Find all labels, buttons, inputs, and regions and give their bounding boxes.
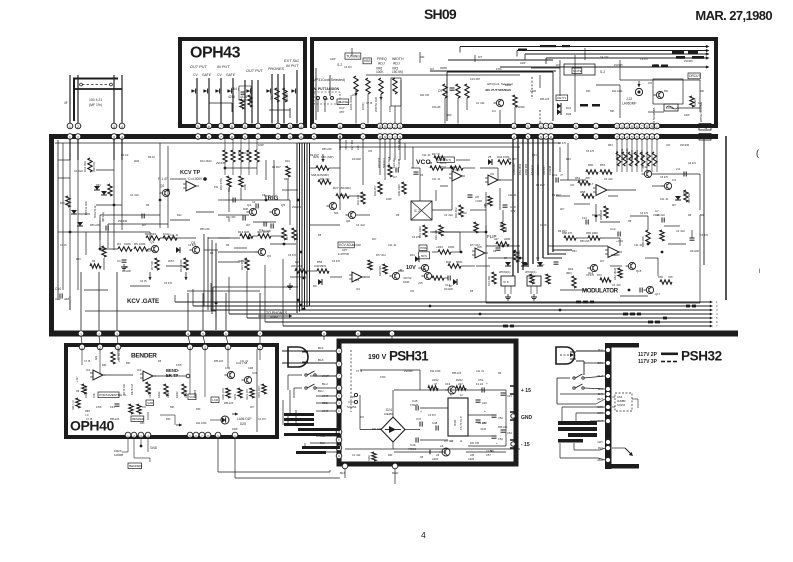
diode D11: [415, 256, 419, 262]
svg-text:8: 8: [646, 125, 648, 129]
svg-text:2.0: 2.0: [672, 178, 677, 182]
svg-text:C19 4N7: C19 4N7: [470, 77, 481, 81]
svg-text:R12 100K: R12 100K: [612, 90, 623, 93]
svg-text:RB7: RB7: [85, 409, 91, 413]
wire bundle step top: [298, 142, 310, 144]
svg-text:C3 470: C3 470: [412, 236, 421, 239]
staircase corners: [204, 305, 298, 307]
svg-text:D8: D8: [318, 234, 322, 237]
svg-text:TUNING: TUNING: [346, 55, 360, 59]
wires under cluster: [444, 98, 446, 124]
svg-text:WK532 500MBA: WK532 500MBA: [699, 103, 703, 122]
extra cap trig: [270, 224, 272, 229]
IC2 box with X: [411, 201, 432, 220]
svg-text:R41 330: R41 330: [226, 216, 236, 219]
resistor R66 vert: [684, 190, 688, 202]
diode D9: [318, 279, 322, 285]
svg-text:J7: J7: [560, 173, 563, 177]
svg-text:25: 25: [488, 155, 492, 159]
svg-text:R3 C3: R3 C3: [121, 153, 129, 157]
svg-text:R9 4M7: R9 4M7: [478, 422, 487, 425]
svg-text:Q12: Q12: [642, 165, 648, 169]
svg-text:C1: C1: [117, 259, 121, 263]
diode pair main left: [94, 186, 100, 190]
board PSH31 outline: [339, 341, 516, 464]
svg-text:C4B: C4B: [248, 366, 253, 370]
svg-text:8: 8: [646, 135, 648, 139]
svg-text:4: 4: [300, 125, 302, 129]
cap C48: [435, 426, 437, 431]
kcv extra wires: [58, 177, 70, 179]
svg-text:BENDER: BENDER: [131, 353, 157, 360]
svg-text:R39 100K: R39 100K: [397, 184, 401, 196]
svg-text:5: 5: [450, 394, 452, 397]
board OPH40 outline: [66, 345, 277, 437]
svg-text:C13: C13: [445, 283, 451, 287]
svg-text:(MF1%): (MF1%): [101, 212, 105, 222]
diode D21 D20: [557, 103, 561, 109]
transistor Q16: [646, 286, 653, 293]
svg-text:C48: C48: [432, 421, 438, 425]
svg-text:BLK: BLK: [318, 358, 324, 362]
boxed label LM324 vco: [437, 157, 454, 163]
svg-text:C3 470: C3 470: [640, 58, 648, 61]
svg-text:J8: J8: [399, 268, 402, 272]
svg-text:R41 330: R41 330: [592, 214, 602, 217]
wire net top box2: [315, 68, 317, 120]
wire freq adj: [366, 74, 520, 76]
svg-text:R62 160M: R62 160M: [613, 268, 617, 280]
svg-text:1/47K5R: 1/47K5R: [338, 252, 349, 256]
svg-text:100P: 100P: [520, 62, 526, 65]
svg-text:BLU: BLU: [318, 389, 323, 393]
boxed label PHASE: [337, 99, 349, 105]
svg-text:PHASE: PHASE: [338, 100, 348, 104]
boxed label PORTAMENTO: [98, 392, 119, 398]
wires main to OPH40: [81, 336, 82, 344]
svg-text:16+8: 16+8: [440, 161, 447, 165]
thin rect frame right of width adj: [447, 71, 553, 73]
svg-text:9: 9: [384, 135, 386, 139]
svg-text:56K R17: 56K R17: [382, 157, 386, 168]
svg-text:1N4148: 1N4148: [432, 106, 441, 109]
svg-text:C6: C6: [420, 174, 424, 177]
svg-text:C4 .022: C4 .022: [74, 170, 83, 173]
svg-text:4M2: 4M2: [134, 159, 140, 163]
svg-text:13,22: 13,22: [476, 382, 483, 386]
svg-text:R56 22K: R56 22K: [322, 148, 332, 151]
svg-text:GATE: GATE: [202, 73, 212, 77]
svg-text:C4 .022: C4 .022: [656, 214, 665, 217]
svg-text:LA06DMP: LA06DMP: [622, 102, 637, 106]
svg-text:4K53: 4K53: [168, 260, 174, 263]
svg-text:C4 .022: C4 .022: [444, 214, 453, 217]
svg-text:2PK60(1): 2PK60(1): [525, 270, 536, 274]
bottom bus risers: [174, 295, 176, 302]
wire mid row: [310, 167, 316, 169]
svg-text:OUT PUT: OUT PUT: [190, 65, 207, 69]
svg-text:100P: 100P: [386, 198, 392, 201]
svg-text:7: 7: [220, 125, 222, 129]
svg-text:4M8: 4M8: [243, 208, 248, 211]
svg-text:A204: A204: [432, 457, 439, 461]
resistor R9: [163, 236, 177, 240]
svg-text:GND: GND: [150, 446, 158, 450]
wire plug top BLK: [282, 350, 339, 352]
resistor R60 mod: [604, 206, 608, 218]
svg-text:6: 6: [540, 135, 542, 139]
dark blob top1: [540, 45, 556, 47]
resistor R102: [262, 384, 266, 394]
svg-text:R101 10K: R101 10K: [246, 389, 249, 400]
dashed contact box: [314, 92, 340, 104]
capacitor trig: [263, 222, 265, 227]
OPH43 jack plug contacts: [191, 89, 195, 93]
svg-text:PSH31: PSH31: [389, 349, 429, 364]
transistor Q6 trig: [258, 248, 265, 255]
wire 10V area: [408, 261, 415, 263]
svg-text:3: 3: [399, 125, 401, 129]
svg-text:C7 J5: C7 J5: [148, 250, 155, 253]
transformer T1 primary bars: [284, 413, 314, 416]
svg-text:10V: 10V: [406, 265, 416, 271]
svg-text:IN PUT: IN PUT: [217, 65, 230, 69]
cap C31 right: [501, 392, 506, 394]
resistor R31 vert: [361, 192, 365, 204]
svg-text:J15: J15: [142, 406, 147, 409]
svg-text:470K: 470K: [496, 68, 502, 71]
svg-text:C11 .01: C11 .01: [432, 178, 441, 181]
transistor Q13 mod: [664, 182, 671, 189]
svg-text:R50: R50: [588, 163, 594, 167]
svg-text:R51: R51: [575, 176, 581, 180]
transistor Q4 trig: [249, 208, 256, 215]
svg-text:IC4: IC4: [500, 224, 505, 227]
PSH32 connector bar: [605, 343, 612, 469]
svg-text:+R43: +R43: [436, 245, 443, 249]
wire main left vertical pair: [57, 140, 59, 300]
cap C46: [415, 438, 417, 443]
cap row mod: [554, 261, 559, 263]
bottom bus lines with arrows: [175, 301, 710, 303]
svg-text:6: 6: [540, 125, 542, 129]
svg-text:9: 9: [244, 135, 246, 139]
svg-text:C4 .022: C4 .022: [612, 284, 621, 287]
svg-text:R33: R33: [140, 422, 145, 425]
svg-text:PWM: PWM: [420, 246, 428, 250]
wires psh32 switch net: [584, 376, 605, 378]
svg-text:R33: R33: [572, 250, 577, 253]
transformer T2 wires: [559, 443, 561, 458]
svg-text:LPF115F: LPF115F: [291, 264, 303, 268]
svg-text:S.2: S.2: [337, 63, 342, 67]
svg-text:2: 2: [277, 125, 279, 129]
svg-text:5: 5: [631, 135, 633, 139]
resistor R180: [226, 388, 230, 398]
op-amp IC1 kcv: [186, 181, 196, 191]
svg-text:KCV .GATE: KCV .GATE: [127, 298, 159, 305]
mains plug psh31: [288, 347, 308, 367]
wire vco lower net: [432, 251, 438, 253]
mod extra caps: [585, 220, 587, 225]
svg-text:R77 1K2: R77 1K2: [470, 244, 480, 247]
resistor width VR: [393, 78, 397, 94]
svg-text:R33: R33: [60, 202, 65, 205]
capacitor C8 vco: [468, 194, 473, 196]
svg-text:4K7: 4K7: [556, 64, 561, 67]
svg-text:R9 4M7: R9 4M7: [552, 194, 561, 197]
wire psh32 plug bottom: [576, 360, 584, 362]
svg-text:2SC945: 2SC945: [216, 162, 226, 165]
trig extra wires2: [225, 167, 257, 169]
svg-text:1: 1: [656, 125, 658, 129]
diode D25 lamp: [221, 416, 229, 424]
svg-text:F. 1.47: F. 1.47: [158, 177, 168, 181]
svg-text:C7 J5: C7 J5: [86, 418, 93, 421]
output +15 tab: [510, 386, 516, 394]
op-amp IC5 vco: [475, 248, 485, 258]
svg-text:5: 5: [527, 135, 529, 139]
svg-text:C3 470: C3 470: [640, 212, 649, 215]
svg-text:A206: A206: [468, 457, 475, 461]
svg-text:8: 8: [231, 125, 233, 129]
LED lamp D22: [635, 88, 642, 95]
svg-text:BLU: BLU: [598, 348, 603, 352]
svg-text:C4 .022: C4 .022: [676, 230, 685, 233]
wire trig rows: [218, 237, 240, 239]
svg-text:1N4148: 1N4148: [690, 250, 699, 253]
svg-text:3: 3: [113, 125, 115, 129]
svg-text:R56 22K: R56 22K: [498, 426, 508, 429]
resistor R71: [618, 268, 622, 278]
svg-text:D9: D9: [313, 284, 317, 288]
svg-text:56K: 56K: [700, 90, 705, 93]
svg-text:R63: R63: [658, 275, 663, 279]
svg-text:A6: A6: [440, 444, 444, 448]
svg-text:C3 470: C3 470: [586, 150, 595, 153]
svg-text:C3: C3: [252, 201, 256, 204]
svg-text:R8 25K2: R8 25K2: [145, 232, 157, 236]
svg-text:C7: C7: [393, 175, 397, 179]
svg-text:C11 .01: C11 .01: [388, 244, 397, 247]
svg-text:9: 9: [651, 135, 653, 139]
svg-text:IC3: IC3: [455, 168, 460, 172]
svg-text:220K R51: 220K R51: [524, 163, 528, 175]
svg-text:MODULATOR: MODULATOR: [582, 289, 619, 295]
svg-text:BENDER: BENDER: [132, 417, 144, 421]
main board right border: [725, 136, 727, 300]
wire psh32 plug top: [576, 350, 605, 352]
svg-text:2: 2: [394, 135, 396, 139]
resistor R13 trig: [240, 234, 253, 238]
resistor R120 bender: [111, 352, 115, 364]
svg-text:R33: R33: [76, 258, 81, 261]
transformer T1 secondary bars: [302, 446, 340, 449]
svg-text:C19: C19: [445, 382, 451, 386]
svg-text:4IN. PUT7WS5IGN: 4IN. PUT7WS5IGN: [485, 88, 511, 92]
svg-text:1: 1: [257, 125, 259, 129]
svg-text:R5 100K: R5 100K: [134, 242, 146, 246]
svg-text:C=4.000V: C=4.000V: [188, 177, 203, 181]
resistor R44 vco: [498, 160, 511, 164]
transistor Q2 kcv: [162, 189, 169, 196]
svg-text:R67B 1M: R67B 1M: [130, 384, 134, 395]
svg-text:KR42: KR42: [157, 391, 161, 398]
svg-text:7: 7: [641, 125, 643, 129]
kcv extra res: [66, 196, 70, 207]
svg-text:D21: D21: [566, 106, 572, 110]
svg-text:(MF1%): (MF1%): [92, 162, 96, 172]
svg-text:R14 40K: R14 40K: [487, 276, 491, 286]
svg-text:2: 2: [277, 135, 279, 139]
fuse box: [664, 104, 678, 111]
svg-text:5: 5: [197, 135, 199, 139]
svg-text:4F: 4F: [64, 101, 68, 105]
svg-text:D8: D8: [470, 290, 474, 293]
svg-text:R24 4K7: R24 4K7: [392, 157, 396, 168]
resistor R46 vco: [448, 264, 461, 268]
svg-text:R13 4R8: R13 4R8: [238, 230, 249, 234]
wire mod net: [608, 189, 636, 191]
resistor R42 vco: [459, 205, 463, 217]
connector label 4 lower: [699, 134, 711, 141]
main board top border: [49, 134, 718, 139]
svg-text:ADJ: ADJ: [393, 62, 400, 66]
resistor R68 mod2: [564, 236, 576, 240]
resistor R26 vert: [383, 264, 387, 274]
resistor R39 vco vert: [402, 182, 406, 194]
svg-text:7: 7: [362, 135, 364, 139]
svg-text:2PK60(1): 2PK60(1): [499, 270, 510, 274]
transistor Q9 vco: [424, 272, 431, 279]
svg-text:J15: J15: [648, 82, 653, 85]
svg-text:C3 470: C3 470: [188, 244, 197, 247]
svg-text:R117 J.0: R117 J.0: [72, 400, 75, 410]
svg-text:J58: J58: [585, 176, 590, 180]
svg-text:R33: R33: [166, 418, 171, 421]
svg-text:47P: 47P: [339, 110, 344, 114]
resistor R64 vert: [492, 272, 496, 284]
svg-text:100P: 100P: [614, 254, 620, 257]
svg-text:C7 J5: C7 J5: [84, 360, 91, 363]
svg-text:D20: D20: [566, 112, 572, 116]
svg-text:C3 470: C3 470: [258, 418, 266, 421]
svg-text:C11 .01: C11 .01: [634, 244, 643, 247]
mod extra wires: [574, 203, 590, 205]
svg-text:1: 1: [389, 125, 391, 129]
svg-text:C7 J5: C7 J5: [540, 224, 547, 227]
svg-text:LA06 D1P: LA06 D1P: [237, 417, 252, 421]
svg-text:D8: D8: [688, 214, 692, 217]
boxed label GZD: [146, 400, 154, 405]
resistor R38 vco: [450, 166, 463, 170]
cap C50: [476, 419, 481, 421]
svg-text:J15: J15: [410, 290, 415, 293]
svg-text:C4P15DF: C4P15DF: [314, 264, 327, 268]
svg-text:9: 9: [357, 332, 359, 336]
svg-text:4K7: 4K7: [430, 68, 435, 71]
svg-text:C53: C53: [498, 437, 503, 441]
svg-text:IN PUT: IN PUT: [286, 64, 299, 68]
svg-text:R51: R51: [600, 163, 606, 167]
wire psh31 top rail: [394, 389, 506, 391]
transistor Q8 mid: [348, 211, 355, 218]
svg-text:R2: R2: [92, 260, 96, 263]
svg-text:C64: C64: [617, 395, 623, 399]
transistor Q11: [392, 272, 399, 279]
svg-text:R37 1K: R37 1K: [432, 153, 441, 156]
wires below PSH31: [344, 469, 346, 478]
connector pin circles between top boards and main board: [67, 123, 73, 129]
svg-text:R26 62K: R26 62K: [378, 266, 382, 276]
svg-text:(MF 1%): (MF 1%): [89, 103, 102, 107]
svg-text:C4 .022: C4 .022: [130, 194, 139, 197]
capacitor C10 vco: [503, 204, 508, 206]
svg-text:2.0: 2.0: [676, 167, 681, 171]
svg-text:C52: C52: [498, 416, 503, 420]
svg-text:+7: +7: [590, 182, 594, 186]
svg-text:R56 22K: R56 22K: [110, 418, 120, 421]
boxed label BENDER small: [131, 416, 144, 421]
switch psh32 b: [573, 387, 575, 389]
svg-text:R9 4M7: R9 4M7: [536, 184, 545, 187]
svg-text:R70: R70: [597, 274, 602, 277]
svg-text:R28 R29(MF): R28 R29(MF): [338, 134, 342, 150]
svg-text:R7 500: R7 500: [150, 261, 154, 270]
wires into bottom connectors: [80, 272, 82, 330]
trig extra caps row: [232, 198, 234, 203]
svg-text:R204: R204: [505, 83, 512, 87]
svg-text:C3 470: C3 470: [688, 162, 697, 165]
svg-text:R34: R34: [383, 175, 387, 180]
connector circles PSH32 bar: [605, 347, 610, 352]
svg-text:100K: 100K: [403, 280, 410, 284]
svg-text:(: (: [756, 148, 759, 158]
svg-text:R29 220K: R29 220K: [387, 156, 391, 168]
svg-text:C56 (MF): C56 (MF): [397, 138, 401, 150]
svg-text:J15: J15: [352, 94, 357, 97]
svg-text:CV: CV: [193, 73, 198, 77]
svg-text:+ 15: + 15: [521, 388, 531, 394]
svg-text:4: 4: [300, 135, 302, 139]
svg-text:R64: R64: [654, 64, 659, 67]
svg-text:C7 J5: C7 J5: [60, 244, 67, 247]
svg-text:R12 4K22: R12 4K22: [200, 159, 212, 163]
svg-text:2: 2: [77, 125, 79, 129]
svg-text:S58 R25(MF): S58 R25(MF): [311, 173, 329, 177]
svg-text:1: 1: [595, 125, 597, 129]
svg-text:FREQ: FREQ: [377, 57, 387, 61]
svg-text:RED: RED: [392, 471, 399, 475]
arrow under R10: [185, 272, 187, 280]
svg-text:C46: C46: [410, 443, 416, 447]
resistor R5 100K: [134, 247, 148, 251]
svg-text:C49: C49: [482, 401, 487, 405]
svg-text:1: 1: [656, 135, 658, 139]
svg-text:S58 R25: S58 R25: [344, 139, 348, 150]
op-amp IC3 vco: [452, 171, 462, 181]
svg-text:R40 22K: R40 22K: [434, 230, 438, 240]
svg-text:MF1% 36K: MF1% 36K: [84, 201, 88, 215]
svg-text:2SC945: 2SC945: [680, 144, 690, 147]
svg-text:70K: 70K: [668, 275, 673, 279]
svg-text:R33: R33: [96, 184, 101, 187]
svg-text:470K: 470K: [96, 406, 102, 409]
resistor KBS VR: [366, 78, 370, 94]
resistor R17b vert: [368, 260, 372, 270]
svg-text:J15: J15: [418, 281, 423, 285]
svg-text:R27 15K: R27 15K: [350, 140, 354, 150]
